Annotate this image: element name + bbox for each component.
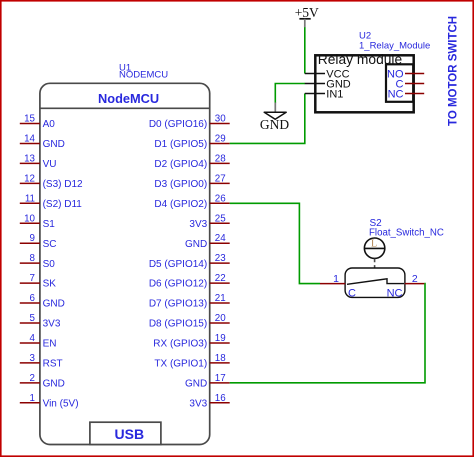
U1 right pin 19 (RX (GPIO3)) (153, 333, 229, 350)
U1 left pin 14 (GND) (20, 133, 65, 150)
svg-text:Vin (5V): Vin (5V) (43, 398, 79, 409)
svg-text:7: 7 (30, 273, 35, 284)
svg-text:29: 29 (215, 133, 226, 144)
U1 left pin 4 (EN) (20, 333, 57, 350)
svg-text:GND: GND (260, 117, 289, 132)
svg-text:6: 6 (30, 293, 36, 304)
svg-text:1: 1 (333, 273, 339, 285)
U1 left pin 10 (S1) (20, 213, 55, 230)
wire U1 pin26 D4(GPIO2) to switch S2 pin1 (230, 203, 320, 283)
wire relay GND to GND symbol (275, 84, 305, 104)
svg-text:14: 14 (24, 133, 35, 144)
svg-text:17: 17 (215, 373, 226, 384)
relay module U2 reference (359, 31, 371, 42)
U1 right pin 22 (D6 (GPIO12)) (149, 273, 230, 290)
net label TO MOTOR SWITCH (448, 16, 460, 126)
U1 right pin 29 (D1 (GPIO5)) (154, 133, 229, 150)
svg-text:20: 20 (215, 313, 226, 324)
svg-text:TO MOTOR SWITCH: TO MOTOR SWITCH (448, 16, 460, 126)
float switch S2 pin 2 (NC) (387, 273, 425, 300)
value label NODEMCU (119, 70, 168, 81)
relay U2 pin GND (305, 78, 351, 90)
svg-text:D8 (GPIO15): D8 (GPIO15) (149, 319, 207, 330)
svg-text:13: 13 (24, 153, 35, 164)
float switch S2 body (345, 268, 405, 297)
svg-text:Float_Switch_NC: Float_Switch_NC (369, 228, 444, 239)
U1 left pin 5 (3V3) (20, 313, 61, 330)
svg-text:23: 23 (215, 253, 226, 264)
wire switch S2 pin2 to U1 pin17 GND (230, 284, 425, 383)
svg-text:USB: USB (115, 426, 145, 442)
svg-text:28: 28 (215, 153, 226, 164)
title NodeMCU (98, 91, 159, 106)
U1 left pin 12 ((S3) D12) (20, 173, 83, 190)
svg-text:21: 21 (215, 293, 226, 304)
U1 right pin 21 (D7 (GPIO13)) (149, 293, 230, 310)
U1 left pin 2 (GND) (20, 373, 65, 390)
U1 right pin 27 (D3 (GPIO0)) (154, 173, 229, 190)
U1 left pin 13 (VU) (20, 153, 57, 170)
relay U2 pin VCC (305, 68, 350, 80)
USB connector box (90, 422, 161, 444)
power symbol +5V (295, 5, 319, 28)
float switch S2 reference (370, 218, 383, 229)
relay U2 pin NC (388, 88, 425, 100)
float switch S2 value Float_Switch_NC (369, 228, 444, 239)
svg-text:GND: GND (43, 378, 65, 389)
U1 right pin 30 (D0 (GPIO16)) (149, 114, 230, 131)
svg-text:TX (GPIO1): TX (GPIO1) (154, 359, 207, 370)
relay module U2 body (315, 52, 413, 113)
U1 left pin 9 (SC) (20, 233, 57, 250)
float switch S2 actuator dashed link (374, 259, 376, 274)
svg-text:27: 27 (215, 173, 226, 184)
svg-text:GND: GND (43, 139, 65, 150)
svg-text:SC: SC (43, 239, 57, 250)
svg-text:15: 15 (24, 114, 35, 125)
svg-text:GND: GND (43, 299, 65, 310)
svg-text:25: 25 (215, 213, 226, 224)
svg-text:22: 22 (215, 273, 226, 284)
svg-text:L: L (371, 239, 377, 250)
svg-text:D6 (GPIO12): D6 (GPIO12) (149, 279, 207, 290)
relay U2 pin NO (387, 68, 424, 80)
relay U2 pin C (396, 78, 425, 90)
U1 left pin 11 ((S2) D11) (20, 193, 83, 210)
U1 left pin 6 (GND) (20, 293, 65, 310)
svg-text:(S3) D12: (S3) D12 (43, 179, 83, 190)
U1 right pin 18 (TX (GPIO1)) (154, 353, 229, 370)
svg-text:5: 5 (30, 313, 36, 324)
U1 right pin 28 (D2 (GPIO4)) (154, 153, 229, 170)
reference designator U1 (119, 62, 131, 73)
svg-text:11: 11 (25, 193, 35, 204)
U1 right pin 17 (GND) (185, 373, 230, 390)
svg-text:D4 (GPIO2): D4 (GPIO2) (154, 199, 207, 210)
svg-text:1: 1 (30, 393, 35, 404)
wire U1 pin29 D1(GPIO5) to relay IN1 (230, 94, 305, 144)
ground symbol GND (260, 103, 289, 132)
svg-text:18: 18 (215, 353, 226, 364)
svg-text:IN1: IN1 (326, 88, 343, 100)
svg-text:3V3: 3V3 (189, 398, 207, 409)
svg-text:30: 30 (215, 114, 226, 125)
U1 left pin 15 (A0) (20, 114, 55, 131)
svg-text:D7 (GPIO13): D7 (GPIO13) (149, 299, 207, 310)
svg-text:9: 9 (30, 233, 35, 244)
svg-text:19: 19 (215, 333, 226, 344)
float switch S2 float bulb (364, 238, 384, 258)
svg-text:NODEMCU: NODEMCU (119, 70, 168, 81)
wire +5V to relay VCC (304, 27, 306, 74)
svg-text:A0: A0 (43, 119, 56, 130)
relay U2 contact block (386, 64, 413, 102)
relay module U2 value 1_Relay_Module (359, 40, 430, 51)
U1 right pin 20 (D8 (GPIO15)) (149, 313, 230, 330)
svg-text:D5 (GPIO14): D5 (GPIO14) (149, 259, 207, 270)
svg-text:4: 4 (30, 333, 36, 344)
U1 right pin 26 (D4 (GPIO2)) (154, 193, 229, 210)
U1 right pin 25 (3V3) (189, 213, 229, 230)
svg-text:GND: GND (185, 239, 207, 250)
svg-text:SK: SK (43, 279, 57, 290)
svg-text:D1 (GPIO5): D1 (GPIO5) (154, 139, 207, 150)
relay U2 pin IN1 (305, 88, 344, 100)
svg-text:NC: NC (388, 88, 404, 100)
svg-text:D3 (GPIO0): D3 (GPIO0) (154, 179, 207, 190)
svg-text:3V3: 3V3 (189, 219, 207, 230)
svg-text:RX (GPIO3): RX (GPIO3) (153, 339, 207, 350)
float switch S2 pin 1 (C) (320, 273, 356, 300)
svg-text:S0: S0 (43, 259, 56, 270)
U1 left pin 8 (S0) (20, 253, 55, 270)
svg-text:12: 12 (24, 173, 35, 184)
svg-text:10: 10 (24, 213, 35, 224)
svg-text:26: 26 (215, 193, 226, 204)
U1 right pin 16 (3V3) (189, 393, 229, 410)
svg-text:D2 (GPIO4): D2 (GPIO4) (154, 159, 207, 170)
svg-text:2: 2 (30, 373, 35, 384)
MCU module U1 body (40, 83, 210, 444)
svg-text:2: 2 (412, 273, 418, 285)
svg-text:16: 16 (215, 393, 226, 404)
U1 right pin 24 (GND) (185, 233, 230, 250)
U1 right pin 23 (D5 (GPIO14)) (149, 253, 230, 270)
svg-text:8: 8 (30, 253, 36, 264)
U1 left pin 1 (Vin (5V)) (20, 393, 79, 410)
svg-text:S1: S1 (43, 219, 56, 230)
svg-text:(S2) D11: (S2) D11 (43, 199, 83, 210)
svg-text:NC: NC (387, 288, 403, 300)
svg-text:D0 (GPIO16): D0 (GPIO16) (149, 119, 207, 130)
U1 left pin 3 (RST) (20, 353, 63, 370)
svg-text:GND: GND (185, 378, 207, 389)
U1 left pin 7 (SK) (20, 273, 56, 290)
svg-text:C: C (348, 288, 356, 300)
svg-text:EN: EN (43, 339, 57, 350)
svg-text:24: 24 (215, 233, 226, 244)
svg-text:3V3: 3V3 (43, 319, 61, 330)
svg-text:1_Relay_Module: 1_Relay_Module (359, 40, 430, 51)
svg-text:RST: RST (43, 359, 63, 370)
svg-text:VU: VU (43, 159, 57, 170)
svg-text:+5V: +5V (295, 5, 319, 20)
svg-text:3: 3 (30, 353, 36, 364)
svg-text:NodeMCU: NodeMCU (98, 91, 159, 106)
